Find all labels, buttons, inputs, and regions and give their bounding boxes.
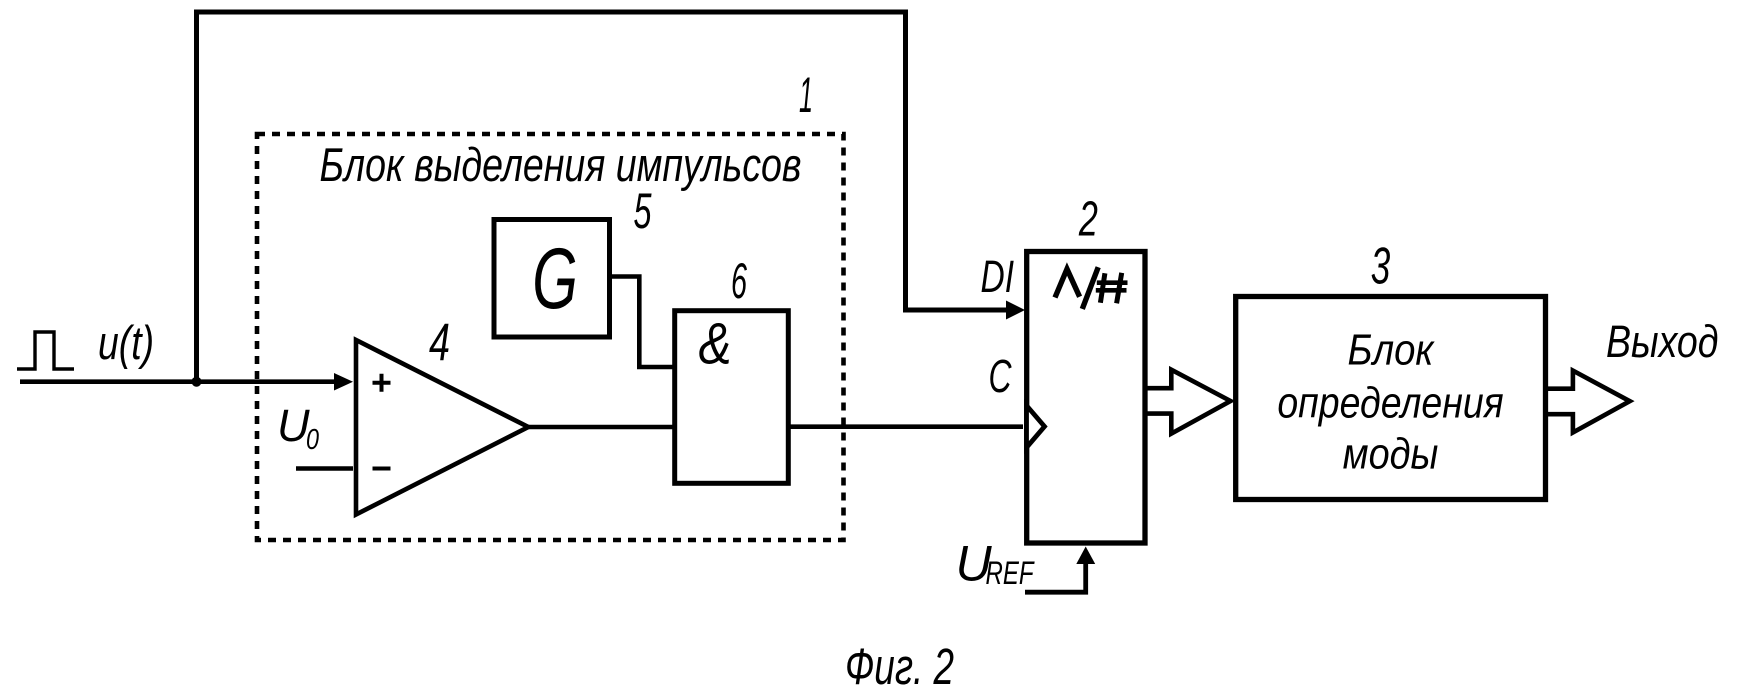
svg-text:C: C [989, 350, 1012, 402]
svg-text:Выход: Выход [1606, 316, 1719, 367]
svg-text:5: 5 [634, 182, 653, 239]
svg-text:4: 4 [429, 314, 450, 373]
svg-text:G: G [532, 231, 578, 327]
svg-text:Блок: Блок [1348, 325, 1436, 374]
svg-text:Фиг. 2: Фиг. 2 [845, 638, 954, 690]
svg-text:u(t): u(t) [98, 316, 154, 369]
svg-text:&: & [699, 312, 732, 377]
svg-text:1: 1 [799, 67, 813, 123]
svg-text:0: 0 [306, 424, 319, 456]
svg-text:моды: моды [1343, 429, 1439, 478]
svg-text:DI: DI [981, 251, 1015, 302]
svg-text:Блок выделения импульсов: Блок выделения импульсов [320, 138, 802, 191]
svg-text:2: 2 [1078, 193, 1098, 247]
svg-text:REF: REF [986, 555, 1036, 591]
svg-text:3: 3 [1371, 237, 1391, 295]
svg-text:6: 6 [731, 252, 748, 309]
svg-text:определения: определения [1277, 378, 1503, 427]
